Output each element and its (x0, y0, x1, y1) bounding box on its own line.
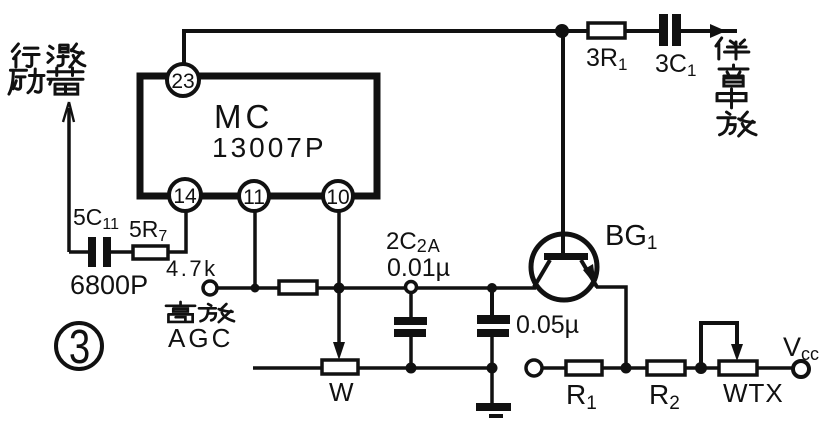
wire left bottom corner to 5C11 (69, 250, 90, 254)
svg-text:MC: MC (214, 98, 273, 135)
音 (719, 65, 748, 86)
capacitor 2C2A 0.01u (386, 228, 450, 368)
node 0.05u bottom junction (487, 363, 498, 374)
potentiometer W (322, 360, 358, 407)
resistor R1 (566, 361, 602, 414)
wire BG1 emitter to R1-R2 junction (596, 287, 626, 368)
node 2C2A bottom junction (406, 363, 417, 374)
node emitter junction (621, 363, 632, 374)
resistor 3R1 (586, 23, 627, 74)
伴 (716, 38, 749, 59)
高 (166, 302, 234, 322)
svg-text:0.05µ: 0.05µ (516, 311, 579, 339)
放 (718, 112, 756, 136)
resistor 5R7 (129, 216, 218, 281)
node pin11 junction (251, 211, 260, 293)
pin 14 (169, 179, 201, 211)
svg-text:10: 10 (326, 186, 349, 209)
wire 3R1 to 3C1 (625, 29, 660, 33)
svg-text:23: 23 (171, 70, 194, 93)
terminal 高放AGC (166, 281, 234, 353)
label 行激 励荡 (top-left) (9, 44, 85, 94)
capacitor 5C11 (70, 204, 148, 300)
wire R2 to WTX (685, 366, 720, 370)
IC U1 MC13007P box (140, 76, 377, 196)
wire 5R7 to pin14 (168, 212, 186, 252)
terminal R1 input (526, 360, 542, 376)
label 伴音中放 (vertical) (716, 38, 756, 136)
ground (476, 403, 511, 418)
wire 3C1 to output arrow (681, 24, 737, 38)
svg-text:WTX: WTX (723, 378, 784, 408)
wire 5C11 to 5R7 (111, 250, 134, 254)
resistor AGC inline (279, 281, 317, 294)
figure number 3 (56, 321, 102, 374)
放 (199, 304, 234, 322)
transistor BG1 (531, 31, 657, 300)
wire pin10 junction down to W wiper arrow (333, 288, 345, 360)
potentiometer WTX (719, 361, 784, 408)
node pin10 junction (334, 211, 345, 294)
wire WTX wiper loop (701, 323, 743, 368)
resistor R2 (647, 361, 685, 414)
svg-text:W: W (329, 377, 354, 407)
行 (12, 44, 39, 67)
激 (48, 44, 85, 67)
arrow to 行激励 (up) (63, 102, 74, 252)
wire junction to 3R1 (562, 29, 589, 33)
capacitor 3C1 (655, 14, 696, 80)
node 0.05u top junction (487, 283, 497, 293)
svg-text:6800P: 6800P (70, 270, 148, 300)
svg-text:4.7k: 4.7k (166, 256, 218, 281)
wire bottom-left rail through W (253, 366, 492, 370)
wire terminal to R1 (542, 366, 567, 370)
svg-text:0.01µ: 0.01µ (387, 254, 450, 282)
励 (9, 69, 44, 94)
node junction top rail to BG1 (555, 24, 569, 38)
wire AGC terminal to junction (217, 286, 280, 290)
pin 23 (167, 64, 199, 96)
terminal Vcc (783, 332, 819, 377)
svg-text:13007P: 13007P (212, 132, 327, 163)
wire pin23 riser and top rail (184, 31, 562, 64)
capacitor 0.05u (477, 288, 579, 404)
pin 10 (323, 181, 353, 211)
pin 11 (239, 181, 269, 211)
中 (717, 89, 746, 108)
node small circle 2C2A tap (406, 282, 417, 293)
node WTX junction (695, 362, 707, 374)
荡 (48, 68, 83, 94)
svg-text:14: 14 (173, 185, 197, 208)
wire resistor to BG1 base line (317, 286, 536, 290)
svg-text:3: 3 (69, 321, 90, 374)
svg-text:AGC: AGC (168, 323, 233, 353)
svg-text:11: 11 (243, 186, 265, 209)
wire R1 to R2 (602, 366, 648, 370)
wire WTX to Vcc (757, 366, 794, 370)
